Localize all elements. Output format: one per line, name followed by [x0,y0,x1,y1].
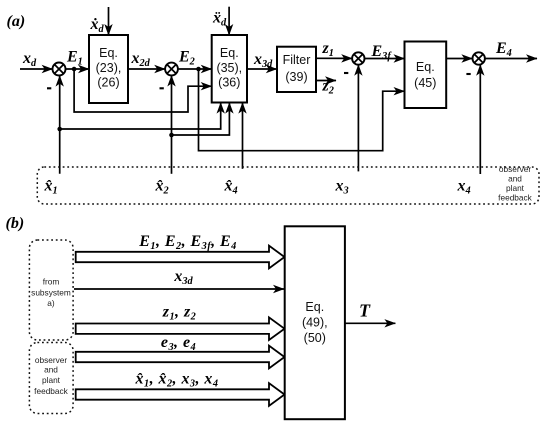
svg-text:x2d: x2d [131,50,151,69]
svg-text:ẋd: ẋd [90,16,105,35]
svg-text:x3: x3 [335,178,349,197]
node dot E2 [196,67,201,72]
dotted box from subsystem a) [29,240,73,340]
summing junction S4 [473,52,485,64]
block U4 Eq.(49)(50) [285,226,345,419]
wire xhat1 branch into U2 bottom [60,103,221,129]
block U2 Eq.(35)(36) [212,35,247,103]
wire xhat2 branch into U2 bottom [172,103,230,135]
node dot E1 [72,67,77,72]
wire xddot_d into U2 top [228,7,230,35]
svg-text:x4: x4 [457,178,471,197]
svg-text:E1, E2, E3f, E4: E1, E2, E3f, E4 [138,233,237,252]
svg-text:(36): (36) [218,76,240,90]
svg-text:(45): (45) [414,76,436,90]
wire xhat1 up into S1 [59,76,61,174]
svg-text:E2: E2 [178,49,195,68]
svg-text:from: from [43,277,60,287]
svg-text:(23),: (23), [96,61,122,75]
wire xhat4 into U2 bottom [242,103,244,169]
wire U3 to S4 [446,58,472,60]
wire z2 output [316,80,336,82]
dotted feedback box (a) [37,167,539,204]
svg-text:observer: observer [35,355,68,365]
svg-text:E1: E1 [66,49,83,68]
svg-text:feedback: feedback [34,386,69,396]
wire E4 output [485,58,537,60]
svg-text:Eq.: Eq. [220,46,239,60]
node dot xhat1 [57,127,62,132]
svg-text:x3d: x3d [253,51,273,70]
wire E2 feedback to U3 left [199,69,405,151]
wire S2 to block U2 [178,68,212,70]
summing junction S1 [53,63,66,76]
svg-text:feedback: feedback [498,193,533,203]
wire E1 feedback to U2 left [74,69,212,112]
block Filter (39) [277,47,316,92]
svg-text:x̂1: x̂1 [44,178,58,197]
wire xdot_d into U1 top [108,7,110,35]
svg-text:subsystem: subsystem [31,288,71,298]
svg-text:Eq.: Eq. [99,46,118,60]
block U1 Eq.(23)(26) [89,35,128,103]
svg-text:observer: observer [499,164,532,174]
big arrow z signals [76,317,285,340]
wire x_d input [20,68,53,70]
svg-text:and: and [508,174,522,184]
svg-text:Eq.: Eq. [416,60,435,74]
svg-text:(26): (26) [97,76,119,90]
minus sign at S1 [47,87,51,89]
svg-text:ẍd: ẍd [212,10,227,29]
svg-text:e3, e4: e3, e4 [161,334,196,353]
summing junction S3 [352,52,364,64]
wire U1 to S2 [128,68,165,70]
svg-text:(39): (39) [285,70,307,84]
svg-text:(49),: (49), [302,316,328,330]
svg-text:z1, z2: z1, z2 [162,304,196,323]
svg-text:x̂4: x̂4 [224,178,238,197]
svg-text:Eq.: Eq. [305,300,324,314]
svg-text:plant: plant [506,183,525,193]
big arrow e signals [76,346,285,369]
svg-text:T: T [359,301,371,321]
minus sign at S4 [466,73,470,75]
wire xhat2 up into S2 [171,76,173,174]
svg-text:xd: xd [22,50,37,69]
wire U2 to Filter [247,68,277,70]
svg-text:x̂1, x̂2, x3, x4: x̂1, x̂2, x3, x4 [135,371,219,390]
big arrow xhat signals [76,383,285,406]
minus sign at S2 [160,87,164,89]
dotted box observer and plant feedback (b) [29,343,73,414]
summing junction S2 [165,63,178,76]
block U3 Eq.(45) [405,42,447,109]
svg-text:(b): (b) [6,215,25,232]
wire S3 to block U3 [365,58,405,60]
svg-text:Filter: Filter [283,53,311,67]
svg-text:x3d: x3d [173,268,193,287]
svg-text:(35),: (35), [216,61,242,75]
svg-text:a): a) [47,298,55,308]
node dot xhat2 [169,133,174,138]
thin wire x_3d (b) [74,288,284,290]
svg-text:z1: z1 [322,40,334,59]
svg-text:(a): (a) [7,13,26,30]
svg-text:and: and [44,365,58,375]
minus sign at S3 [344,72,348,74]
svg-text:plant: plant [42,375,61,385]
svg-text:x̂2: x̂2 [155,178,169,197]
wire T output [345,322,396,324]
svg-text:(50): (50) [304,331,326,345]
wire z1 Filter to S3 [316,57,352,59]
svg-text:E4: E4 [495,40,512,59]
big arrow E signals [76,246,285,269]
wire x3 up into S3 [357,65,359,172]
wire S1 to block U1 [66,68,90,70]
wire x4 up into S4 [479,65,481,174]
